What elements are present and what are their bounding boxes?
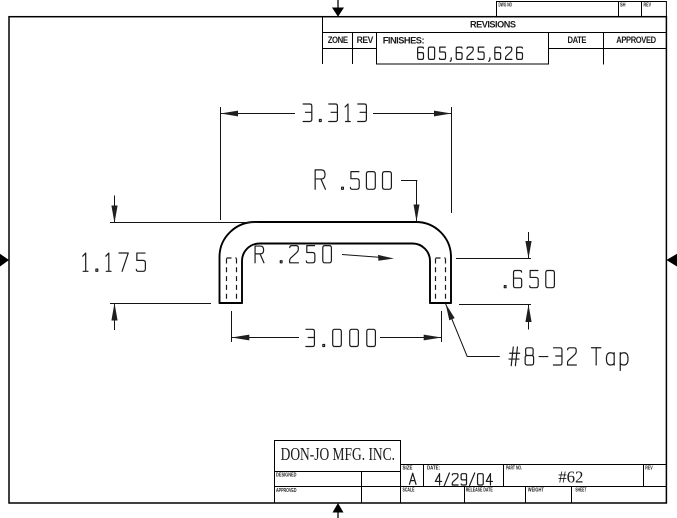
- dim 3.000 right arrowhead: [424, 335, 442, 341]
- svg-text:PART NO.: PART NO.: [506, 466, 522, 472]
- dim 3.000 text: [306, 329, 376, 346]
- zone marker bottom: [333, 503, 344, 518]
- svg-text:REV: REV: [645, 466, 653, 472]
- dim 1.175 text: [83, 253, 146, 271]
- svg-text:REV: REV: [357, 35, 374, 46]
- radius callout R .500 leader: [401, 181, 417, 222]
- svg-text:FINISHES:: FINISHES:: [383, 36, 425, 47]
- date value: [435, 473, 492, 486]
- svg-text:DATE:: DATE:: [427, 466, 440, 472]
- dim .650 top extension line: [456, 258, 531, 260]
- finishes value 605,625,626: [418, 47, 523, 61]
- title block: don-jo box: [275, 441, 401, 472]
- svg-text:SCALE: SCALE: [403, 488, 415, 494]
- zone marker top: [332, 0, 344, 17]
- size value A: [409, 473, 416, 484]
- svg-text:DON-JO MFG. INC.: DON-JO MFG. INC.: [281, 444, 395, 464]
- svg-text:ZONE: ZONE: [328, 35, 348, 46]
- dwg-no strip box: [497, 1, 667, 17]
- zone marker left: [0, 254, 9, 267]
- dim 3.313 right arrowhead: [434, 111, 452, 117]
- svg-text:DATE: DATE: [568, 35, 587, 46]
- svg-text:DWG NO: DWG NO: [499, 3, 513, 9]
- dim .650 bottom arrow: [528, 305, 530, 330]
- title block grid lines: [275, 440, 667, 503]
- radius callout R .500 text: [315, 170, 391, 189]
- dim 3.313 text: [303, 104, 366, 122]
- svg-text:SIZE: SIZE: [403, 466, 414, 472]
- dim 3.313 dimension line: [221, 113, 452, 115]
- leader #8-32 tap text: [509, 347, 628, 370]
- svg-text:#62: #62: [558, 467, 583, 486]
- dim 1.175 bottom extension line: [110, 303, 211, 305]
- leader #8-32 tap: [446, 304, 500, 357]
- svg-text:REVISIONS: REVISIONS: [470, 20, 516, 31]
- radius callout R .250 leader: [342, 255, 379, 258]
- radius callout R .250 text: [255, 246, 331, 263]
- right tap hole (dashed): [436, 258, 446, 302]
- dim 3.000 dimension line: [232, 337, 442, 339]
- svg-text:REV: REV: [644, 3, 652, 9]
- svg-text:SH: SH: [620, 3, 626, 9]
- svg-text:DESIGNED: DESIGNED: [276, 472, 297, 478]
- dim 3.000 extension lines: [232, 311, 442, 342]
- dim 1.175 bottom arrow: [114, 304, 116, 331]
- zone marker right: [666, 254, 677, 267]
- left leg bottom: [219, 302, 243, 304]
- dim 1.175 top arrow: [114, 196, 116, 224]
- dim 3.313 extension lines: [221, 107, 452, 220]
- dim 1.175 top extension line: [110, 222, 258, 224]
- handle inner outline: [242, 244, 430, 304]
- svg-text:APPROVED: APPROVED: [616, 35, 656, 46]
- dim .650 text: [504, 271, 554, 288]
- svg-text:RELEASE DATE: RELEASE DATE: [466, 488, 493, 494]
- revisions block frame: [323, 17, 667, 65]
- svg-text:SHEET: SHEET: [575, 488, 586, 494]
- finishes box: [377, 33, 549, 65]
- svg-text:WEIGHT: WEIGHT: [528, 488, 544, 494]
- svg-text:APPROVED: APPROVED: [276, 488, 297, 494]
- left tap hole (dashed): [227, 258, 237, 302]
- right leg bottom: [429, 302, 452, 304]
- dim 3.000 left arrowhead: [232, 335, 250, 341]
- handle outer outline: [220, 222, 452, 303]
- dim .650 top arrow: [528, 232, 530, 259]
- dim 3.313 left arrowhead: [221, 111, 239, 117]
- dim .650 bottom extension line: [459, 304, 531, 306]
